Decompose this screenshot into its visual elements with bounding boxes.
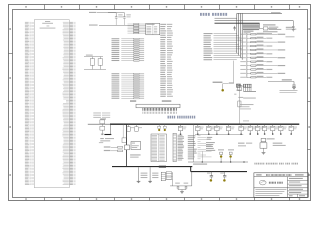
capacitor C80 [180, 124, 182, 126]
IC U4 part labels [45, 20, 50, 23]
title block fine print [255, 188, 286, 191]
wire bus drop [110, 124, 112, 134]
ground symbol U7 [262, 152, 266, 154]
border zone letters right [308, 28, 310, 30]
component above TP4 [218, 149, 224, 150]
wire VSS rail [89, 25, 98, 26]
title block header row [254, 176, 308, 178]
ground R80 [137, 180, 141, 182]
border zone letters left [9, 28, 11, 30]
resistor R71 below bus [101, 124, 103, 126]
IC U4 body (NAND flash) [34, 20, 69, 188]
vertical link to bus B [191, 172, 193, 186]
capacitor C60 [293, 82, 295, 85]
test pad TP4 [220, 154, 222, 157]
component box U7b [260, 143, 267, 148]
wire upper rail [215, 20, 294, 22]
divider drop R80 [138, 167, 140, 181]
border zone numbers bottom [25, 198, 26, 200]
cap block CB2 [243, 83, 251, 85]
cap block drops to rail [243, 87, 245, 91]
sheet outer border [9, 5, 311, 201]
capacitor C96 [224, 172, 226, 176]
title block outline [254, 173, 308, 198]
ferrite bead L2 [259, 28, 263, 30]
series row RC1 [104, 146, 111, 147]
capacitor C72 below bus [135, 124, 137, 127]
capacitor C82 [208, 124, 210, 126]
text rows below cap blocks [240, 104, 254, 105]
capacitor C41 [123, 13, 125, 17]
capacitor C95 [210, 172, 212, 176]
wires J6 to vertical [165, 172, 172, 174]
cap block CB1 [236, 83, 241, 85]
title block mid divider [287, 177, 289, 188]
test pad TP7 [223, 179, 226, 182]
capacitor C91 [290, 124, 292, 126]
buffer U5 box [146, 23, 160, 34]
capacitor C87 [257, 124, 259, 126]
C59 labels [286, 27, 295, 28]
wire top rail [215, 17, 237, 19]
test pad TP1 [221, 89, 224, 92]
net label on top wire [271, 12, 281, 14]
wire VREF [86, 55, 93, 56]
sheet note caption [254, 163, 255, 165]
net stub rows NAND data group B [112, 73, 120, 74]
wire U7 down to ground [263, 148, 265, 152]
border zone ticks top [44, 5, 46, 10]
lower power bus A [112, 166, 192, 168]
border zone numbers top [25, 6, 26, 8]
main bus wire thin segment [88, 123, 110, 125]
series row RC2 [104, 150, 111, 151]
net row with test point TP1 [213, 82, 223, 83]
sheet inner border [13, 10, 308, 198]
mini table J8 [166, 171, 171, 179]
component R60 box [238, 101, 241, 107]
signal wire lower [188, 161, 248, 163]
capacitor C85 [240, 124, 242, 126]
labels right of U7 [273, 143, 283, 144]
labels left of U7 [238, 143, 245, 144]
connector J3 body [136, 104, 180, 108]
power bus rail [215, 22, 260, 24]
net name list column left [160, 24, 166, 25]
capacitor C58 [234, 26, 236, 28]
divider drop R81 [149, 167, 151, 181]
IC U6 small box [131, 142, 141, 150]
net rows right of J5 [178, 135, 183, 136]
net label right top of RC rows [286, 36, 295, 37]
title block lower divider [254, 187, 308, 189]
wire VCC top [97, 12, 116, 14]
junction rail under caps [195, 133, 243, 135]
capacitor C84 [228, 124, 230, 126]
connector table J4 [151, 134, 167, 162]
ground symbol for C60 [292, 87, 296, 89]
caption rows left of bus [93, 112, 101, 115]
resistor R31 [91, 57, 93, 59]
component R75 on vertical [125, 145, 130, 150]
wire to TP1 [222, 84, 224, 89]
IC U4 left pin stubs and net labels pins 1-111 [31, 21, 34, 23]
title block lower right cells [287, 188, 289, 198]
net rows to SSD bus [204, 33, 213, 34]
bus stub thick [104, 134, 111, 136]
cap block labels [236, 90, 240, 91]
section title NAND RAM/DVD1.0 [168, 116, 169, 119]
connector J3 labels [130, 100, 136, 102]
resistor R32 [99, 57, 101, 59]
ground rail under cap blocks [243, 90, 256, 92]
net stub rows NAND data group A [112, 38, 120, 39]
capacitor bank C50-C57 [243, 23, 245, 29]
border zone ticks bottom [44, 198, 46, 201]
net label above bus right [243, 120, 249, 121]
connector J3 pin comb [142, 108, 144, 111]
wire drop to pad TP2 [158, 124, 160, 126]
wire rail jog to ferrite [259, 23, 261, 28]
wire ground rail [84, 68, 106, 70]
wire vertical chain [239, 84, 241, 124]
component C70 [122, 124, 124, 138]
capacitor C71 below bus [128, 124, 130, 127]
caption notes lines [280, 90, 298, 91]
ground for C59 [292, 29, 295, 31]
test pad TP5 [230, 154, 232, 157]
connector J6 cells [161, 172, 165, 181]
net label rows center [188, 135, 196, 136]
capacitor C86 [249, 124, 251, 126]
net rows near TP pads [206, 142, 215, 143]
capacitor C89 [272, 124, 274, 126]
filter labels [263, 24, 276, 25]
net label +1.8V wire [89, 12, 96, 13]
caption under U6 [130, 154, 141, 155]
title block right cells [288, 179, 309, 181]
bus vertical thick [126, 124, 128, 145]
section title NAND SSD1.0 [200, 13, 202, 16]
label under rail [207, 137, 213, 138]
capacitor C98 [184, 183, 189, 184]
wire bus drop x193.5 [193, 124, 195, 162]
shared ground C97 C98 [178, 189, 186, 191]
vertical wire right of J6 [172, 172, 174, 186]
connector J7 table [166, 171, 171, 179]
bus label dark segment [159, 166, 166, 168]
component Q1 box [238, 85, 242, 91]
cap bank bottom rail [243, 29, 259, 31]
vertical feed wire right column [246, 33, 248, 78]
resistor R70 above bus [100, 118, 106, 119]
wire drop x202.3 [201, 152, 203, 163]
connector J3 lower pin comb [142, 112, 144, 114]
component above TP5 [228, 149, 234, 150]
wire bottom rail [170, 185, 192, 187]
IC U4 right pin stubs and labels [63, 21, 69, 24]
capacitor C88 [264, 124, 266, 126]
title block logo [259, 180, 266, 185]
bus wire top horizontal [237, 12, 282, 14]
lower bus jog [190, 167, 192, 172]
pin strip connector J5 [173, 133, 176, 161]
component box U7 [261, 139, 266, 142]
wire drop to pad TP3 [164, 124, 166, 126]
net labels under stub [100, 138, 104, 139]
test pad TP6 [210, 179, 213, 182]
capacitor C40 [115, 16, 118, 18]
main bus wire thick [110, 123, 299, 125]
bus vertical wires [236, 13, 238, 53]
capacitor C90 [280, 124, 282, 126]
wire to C60 [268, 81, 294, 83]
capacitor C59 at bus end [292, 21, 294, 27]
RC rows R40-R51 [240, 34, 246, 35]
capacitor C81 [197, 124, 199, 126]
wire bus vertical tail [233, 61, 235, 84]
title block company text [269, 182, 270, 184]
ground R81 [148, 180, 152, 182]
capacitor C83 [216, 124, 218, 126]
capacitor C97 [175, 183, 180, 184]
resistor array R20-R26 rows [128, 23, 134, 25]
lower power bus B [191, 171, 247, 173]
border zone ticks left/right [9, 53, 13, 55]
cap bank labels [244, 31, 254, 32]
